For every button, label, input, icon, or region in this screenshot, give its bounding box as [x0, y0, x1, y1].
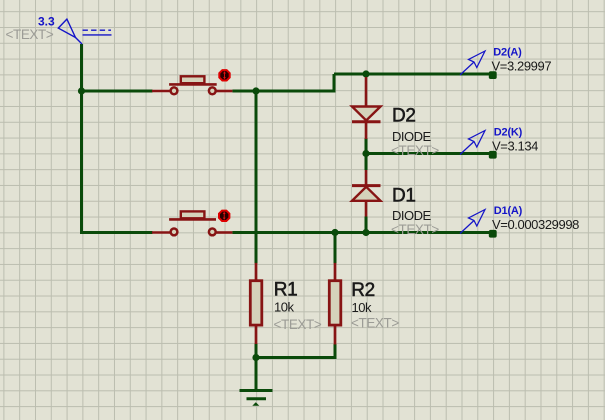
- probe D1(A) terminal: [489, 230, 497, 238]
- pin stubs: [152, 90, 170, 93]
- wire: D2 cathode green segment: [365, 138, 368, 154]
- svg-text:V=3.29997: V=3.29997: [492, 59, 552, 74]
- wire: ground stem: [255, 358, 258, 390]
- svg-text:D2(K): D2(K): [494, 126, 523, 138]
- svg-text:<TEXT>: <TEXT>: [274, 317, 322, 332]
- wire: R2 bottom green segment: [334, 344, 337, 359]
- wire: R1 bottom green segment: [255, 344, 258, 360]
- svg-text:R1: R1: [274, 279, 298, 300]
- svg-text:D1(A): D1(A): [494, 205, 523, 217]
- bottom pin: [255, 326, 258, 344]
- svg-text:D2(A): D2(A): [493, 47, 522, 59]
- cathode bar: [352, 120, 381, 123]
- svg-text:D1: D1: [392, 186, 416, 207]
- svg-text:DIODE: DIODE: [392, 208, 432, 223]
- node junction dot node M: [362, 150, 369, 157]
- button SW2 (bottom, released): [152, 211, 232, 236]
- wire: mid vertical from row1 to R1: [255, 91, 258, 264]
- node junction dot top rail D2 anode: [362, 70, 369, 77]
- node junction dot row1 left: [78, 87, 85, 94]
- svg-text:<TEXT>: <TEXT>: [391, 143, 439, 158]
- terminal circles: [171, 87, 178, 94]
- wire: jog up to top rail: [333, 74, 336, 91]
- ground: [240, 391, 273, 406]
- cathode pin: [365, 123, 368, 139]
- probe D2(A) terminal: [489, 71, 497, 79]
- wire: row2 left segment: [80, 231, 153, 234]
- cathode bar: [352, 184, 381, 187]
- wire: R2 top green segment: [334, 233, 337, 264]
- diode D1: [352, 170, 381, 217]
- probe D2(A) arrow: [460, 51, 485, 75]
- anode pin: [365, 77, 368, 107]
- wire: node M horizontal to probe D2(K): [366, 152, 490, 155]
- svg-text:V=3.134: V=3.134: [492, 138, 538, 153]
- actuator bar: [169, 83, 217, 86]
- svg-text:DIODE: DIODE: [392, 129, 432, 144]
- svg-text:<TEXT>: <TEXT>: [351, 315, 399, 330]
- probe D2(K) arrow: [460, 131, 485, 155]
- body: [250, 281, 261, 325]
- svg-text:<TEXT>: <TEXT>: [6, 27, 54, 42]
- svg-text:10k: 10k: [274, 299, 294, 314]
- button SW1 (top, pressed): [152, 70, 232, 94]
- triangle: [352, 107, 381, 121]
- resistor R2: [329, 263, 341, 345]
- wire: row2 right segment to probe D1(A): [232, 231, 490, 234]
- actuator icon: [219, 70, 229, 80]
- svg-text:V=0.000329998: V=0.000329998: [492, 217, 579, 232]
- cap: [181, 76, 205, 83]
- svg-text:R2: R2: [351, 280, 375, 301]
- wire: top rail to probe D2(A): [334, 73, 490, 76]
- wire: row1 right segment after button1: [232, 90, 335, 93]
- anode pin: [365, 201, 368, 217]
- wire: node M down to D1: [365, 154, 368, 171]
- wire: left vertical rail down to row2: [80, 91, 83, 234]
- top pin: [255, 263, 258, 281]
- probe D2(K) terminal: [489, 151, 497, 159]
- node junction dot ground: [252, 354, 259, 361]
- resistor R1: [250, 263, 261, 344]
- svg-text:D2: D2: [392, 106, 416, 127]
- wire: D1 anode green segment: [365, 217, 368, 233]
- wire: bottom horizontal R2 to ground node: [256, 356, 335, 359]
- wire: power terminal vertical: [80, 44, 83, 91]
- diode D2: [352, 77, 381, 139]
- cathode pin: [365, 170, 368, 185]
- power terminal 3.3V symbol: [58, 19, 111, 44]
- svg-text:10k: 10k: [352, 300, 372, 315]
- svg-text:<TEXT>: <TEXT>: [391, 222, 439, 237]
- wire: row1 left segment: [80, 90, 153, 93]
- probe D1(A) arrow: [460, 210, 485, 234]
- triangle: [352, 187, 381, 201]
- node junction dot D1 anode row2: [362, 229, 369, 236]
- node junction dot row1 mid: [252, 87, 259, 94]
- node junction dot R2 top: [331, 229, 338, 236]
